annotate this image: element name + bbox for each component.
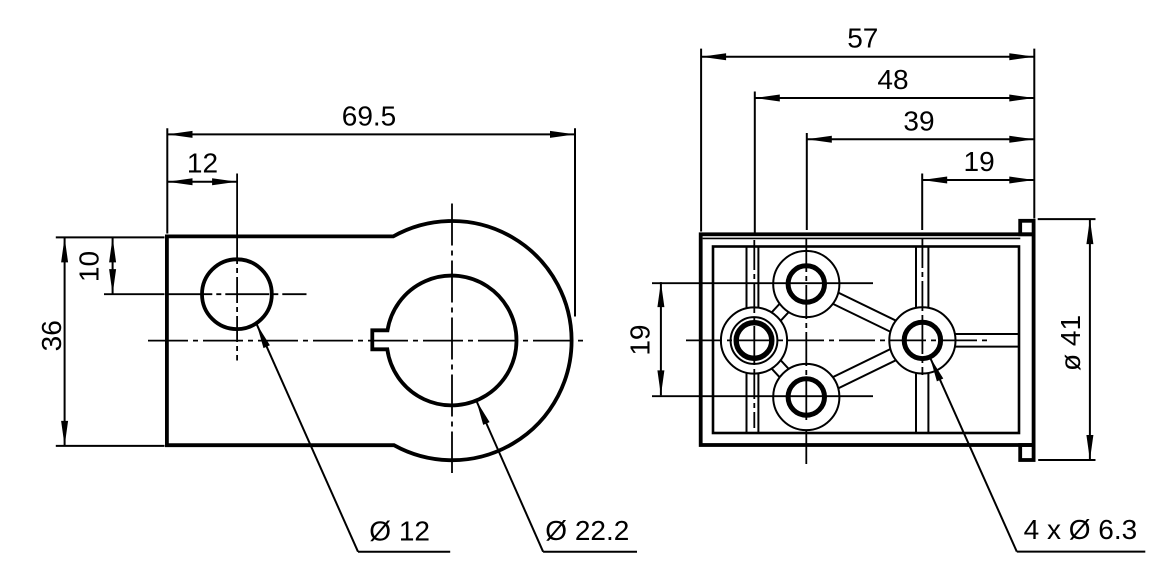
rib top-right bbox=[804, 290, 920, 346]
extension line for 10 dim bbox=[104, 293, 165, 295]
left hole chamfer circle bbox=[731, 317, 778, 364]
svg-text:48: 48 bbox=[877, 64, 908, 95]
svg-text:Ø 22.2: Ø 22.2 bbox=[545, 515, 629, 546]
svg-text:19: 19 bbox=[964, 146, 995, 177]
rib lines left hole vertical bbox=[746, 247, 748, 434]
right hole vertical centerline bbox=[921, 238, 923, 375]
dimension diam 41 bbox=[1038, 218, 1096, 220]
small hole vertical centerline + extension from 12 dim bbox=[236, 174, 238, 239]
front view main horizontal centerline bbox=[148, 340, 583, 342]
front view boss vertical centerline bbox=[451, 204, 453, 474]
svg-text:69.5: 69.5 bbox=[342, 101, 397, 132]
dimension 12 bbox=[167, 181, 237, 183]
dimension 19 horizontal bbox=[921, 174, 923, 231]
svg-text:ø 41: ø 41 bbox=[1055, 315, 1086, 371]
rib left-bottom bbox=[750, 345, 802, 402]
svg-text:57: 57 bbox=[847, 23, 878, 54]
hole diam 6.3 circles (4x) bbox=[788, 266, 824, 302]
dimension 39 horizontal bbox=[806, 133, 808, 230]
svg-text:10: 10 bbox=[73, 251, 104, 282]
svg-text:36: 36 bbox=[36, 320, 67, 351]
dimension 10 bbox=[112, 237, 114, 294]
front view: plate body with round boss, outline bbox=[167, 221, 572, 460]
dimension 69.5 bbox=[166, 128, 168, 233]
svg-text:19: 19 bbox=[624, 325, 655, 356]
common right extension line bbox=[1033, 49, 1035, 219]
side view inner rectangle bbox=[713, 247, 1019, 434]
svg-text:12: 12 bbox=[187, 148, 218, 179]
top/bottom holes vertical centerline bbox=[805, 238, 807, 420]
small hole horizontal centerline bbox=[168, 293, 306, 295]
left hole vertical centerline bbox=[753, 240, 755, 428]
dimension 57 horizontal bbox=[700, 49, 702, 232]
boss flange tab top bbox=[1020, 221, 1033, 235]
19 vertical dim extension through top hole bbox=[652, 282, 873, 284]
dimension 36 bbox=[56, 236, 165, 238]
hole diam 12 circle bbox=[202, 259, 272, 329]
svg-text:4 x Ø 6.3: 4 x Ø 6.3 bbox=[1024, 514, 1138, 545]
leader diam 22.2 bbox=[476, 401, 543, 552]
bore diam 22.2 with keyway notch bbox=[372, 276, 516, 406]
leader diam 12 bbox=[257, 324, 359, 552]
rib bottom-right bbox=[809, 346, 925, 403]
hole boss circles (4x) bbox=[773, 251, 839, 317]
side view main horizontal centerline bbox=[686, 339, 990, 341]
dimension 19 vertical (hole spacing) bbox=[660, 282, 662, 395]
svg-text:39: 39 bbox=[903, 106, 934, 137]
leader 4 x diam 6.3 bbox=[930, 357, 1017, 551]
rib lines right hole vertical bbox=[915, 247, 917, 434]
side view outer outline bbox=[701, 234, 1034, 445]
dimension 48 horizontal bbox=[754, 92, 756, 234]
side view fillet line top bbox=[703, 237, 1021, 239]
boss flange tab bottom bbox=[1020, 445, 1033, 460]
19 vertical dim extension through bottom hole bbox=[652, 395, 873, 397]
rib top-left bbox=[750, 280, 802, 337]
svg-text:Ø 12: Ø 12 bbox=[369, 516, 430, 547]
rib lines right hole horizontal bbox=[920, 333, 1019, 335]
